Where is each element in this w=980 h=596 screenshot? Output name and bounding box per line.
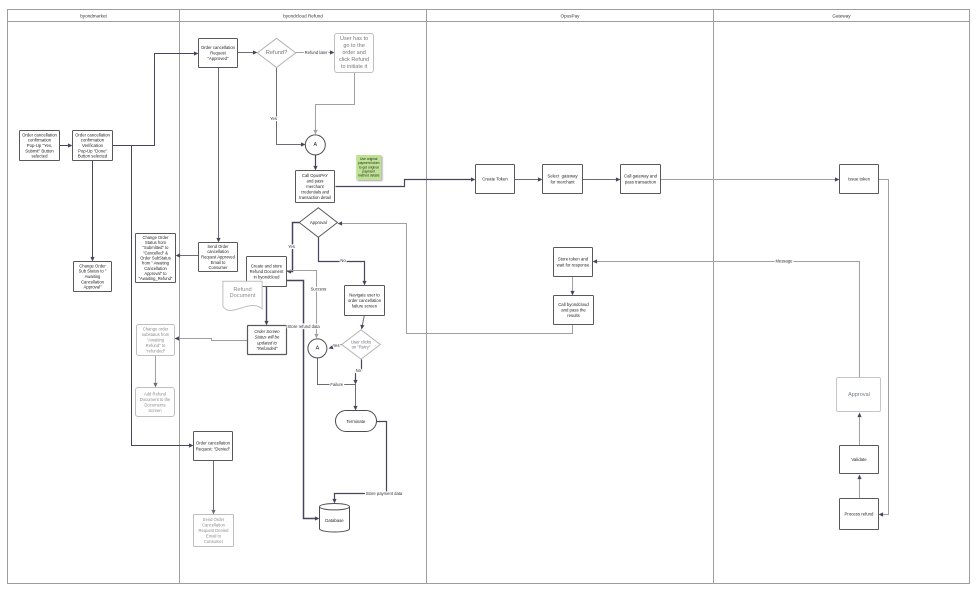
svg-text:Yes: Yes: [333, 343, 340, 348]
svg-text:Terminate: Terminate: [346, 419, 365, 424]
svg-text:Order ScreenStatus will beupda: Order ScreenStatus will beupdated to"Ref…: [254, 329, 280, 351]
svg-text:No: No: [356, 368, 362, 373]
svg-text:Create Token: Create Token: [482, 177, 508, 182]
svg-text:Navigate user toorder cancella: Navigate user toorder cancellationfailur…: [348, 293, 382, 309]
svg-text:byondcloud Refund: byondcloud Refund: [283, 13, 323, 18]
svg-text:User has togo to theorder andc: User has togo to theorder andclick Refun…: [339, 36, 369, 70]
svg-text:Yes: Yes: [270, 116, 277, 121]
svg-text:No: No: [340, 258, 346, 263]
svg-text:Store refund data: Store refund data: [287, 324, 320, 329]
svg-text:User clickson "Retry": User clickson "Retry": [351, 339, 371, 349]
svg-text:Store payment data: Store payment data: [366, 491, 403, 496]
svg-text:Refund?: Refund?: [266, 50, 288, 56]
svg-text:Failure: Failure: [330, 382, 343, 387]
svg-text:Create and storeRefund Documen: Create and storeRefund Documentin byondc…: [250, 263, 285, 279]
svg-text:Message: Message: [776, 259, 794, 264]
svg-text:Yes: Yes: [288, 244, 295, 249]
svg-text:A: A: [316, 345, 320, 351]
svg-text:Database: Database: [325, 518, 344, 523]
svg-text:Order cancellationRequest: "De: Order cancellationRequest: "Denied": [196, 441, 231, 452]
svg-text:Select gatewayfor merchant: Select gatewayfor merchant: [547, 174, 578, 185]
svg-text:Store token andwait for respon: Store token andwait for response: [557, 257, 590, 268]
svg-text:Refund later: Refund later: [305, 50, 328, 55]
svg-text:byondmarket: byondmarket: [80, 13, 107, 18]
svg-text:Use originalpayment tokento ge: Use originalpayment tokento get original…: [358, 157, 380, 178]
svg-text:Approval: Approval: [310, 220, 327, 225]
svg-text:OpusPay: OpusPay: [561, 13, 581, 18]
svg-text:A: A: [313, 142, 317, 148]
svg-text:Issue token: Issue token: [848, 177, 871, 182]
svg-text:Validate: Validate: [851, 457, 867, 462]
svg-text:Process refund: Process refund: [845, 512, 875, 517]
svg-text:Call gateway andpass transacti: Call gateway andpass transaction: [624, 174, 658, 185]
svg-text:Success: Success: [311, 286, 327, 291]
svg-text:Approval: Approval: [848, 392, 870, 398]
svg-text:Gateway: Gateway: [832, 13, 851, 18]
